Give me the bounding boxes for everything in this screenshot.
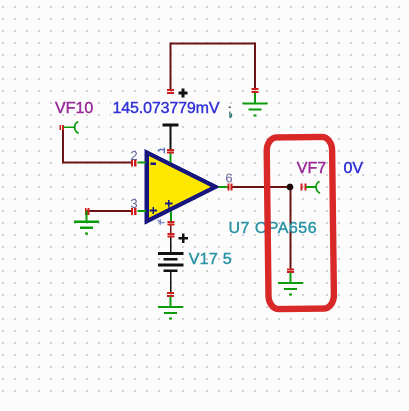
- readout background: [111, 99, 222, 117]
- readout id mark: [229, 106, 232, 108]
- op-amp U7 triangle: [147, 153, 216, 222]
- wire output pin 6 to junction: [232, 186, 291, 188]
- battery V17 top lead: [170, 237, 172, 253]
- green pin stub V+ top: [170, 154, 172, 163]
- wire pin 3 to ground: [87, 210, 132, 212]
- wire top loop V+ supply to ground: [171, 44, 256, 90]
- op-amp plus sign (V+ supply): [165, 200, 173, 207]
- probe VF10 symbol: [64, 122, 79, 134]
- blue squiggle near V- pin: [158, 219, 165, 225]
- op-amp minus sign (pin 2): [150, 163, 156, 165]
- ground G3 battery bottom: [158, 297, 183, 319]
- wire junction down to ground: [290, 187, 292, 269]
- probe VF7 symbol: [306, 181, 320, 193]
- red tick above op-amp V+ pin: [167, 150, 174, 153]
- red tick pin 2: [132, 159, 135, 166]
- red tick battery bottom ground: [167, 293, 174, 296]
- op-amp plus sign (pin 3): [150, 207, 158, 214]
- ground G4 in red circle: [278, 273, 303, 295]
- wire VF10 probe to pin 2: [63, 128, 131, 163]
- svg-text:VF10: VF10: [55, 100, 93, 117]
- plus sign of battery: [179, 234, 189, 244]
- red tick below op-amp V- pin: [167, 222, 174, 225]
- red tick top right ground: [252, 89, 259, 92]
- green pin stub pin 2: [138, 162, 147, 164]
- red tick battery top: [167, 234, 174, 237]
- svg-text:V17 5: V17 5: [189, 251, 232, 268]
- red tick pin 3: [132, 208, 135, 215]
- ground G2 near pin 3: [74, 211, 99, 234]
- hidden source lead down to op-amp V+ pin: [170, 125, 172, 149]
- green pin stub pin 3: [138, 210, 147, 212]
- svg-text:3: 3: [130, 196, 137, 211]
- blue squiggle near V+ pin: [158, 148, 165, 153]
- wire op-amp V- pin to battery: [170, 225, 172, 234]
- battery V17 plates: [158, 252, 184, 255]
- green pin stub V- bottom: [170, 212, 172, 222]
- green pin stub pin 6: [219, 186, 228, 188]
- red tick pin 6: [228, 184, 231, 191]
- svg-text:U7 OPA656: U7 OPA656: [229, 220, 317, 237]
- svg-text:6: 6: [225, 170, 232, 185]
- red tick top loop left end: [167, 90, 174, 93]
- red tick pin 3 ground end: [86, 208, 89, 215]
- svg-text:145.073779mV: 145.073779mV: [113, 100, 220, 117]
- battery V17 bottom lead: [170, 272, 172, 293]
- svg-text:2: 2: [130, 148, 137, 163]
- ground G1 top right: [242, 93, 267, 115]
- red tick VF7 probe: [301, 184, 305, 191]
- red annotation rounded rectangle: [267, 137, 334, 309]
- red tick junction ground: [287, 269, 294, 272]
- svg-text:0V: 0V: [344, 160, 364, 177]
- hidden source plate (top): [163, 124, 179, 127]
- red tick VF10 probe point: [60, 125, 63, 130]
- svg-text:VF7: VF7: [297, 160, 326, 177]
- junction node dot: [287, 184, 294, 191]
- plus sign of top source: [179, 89, 188, 98]
